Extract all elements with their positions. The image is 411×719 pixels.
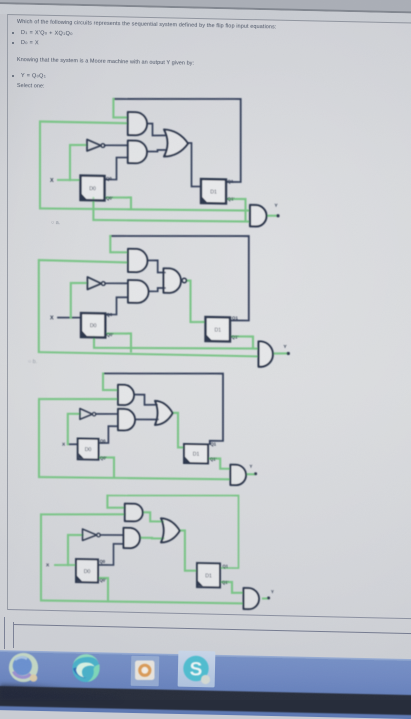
wire Q1 drop to AND1 in1 (a) xyxy=(113,99,127,118)
taskbar button (orange app) xyxy=(130,655,159,685)
wire rail2 under D0 (a) xyxy=(93,198,250,223)
inverter N1 (d) xyxy=(83,529,101,541)
node Y node (c) xyxy=(254,472,257,475)
window frame left tick inner xyxy=(13,622,14,648)
inverter N1 (c) xyxy=(80,409,96,420)
wire X to inverter riser (d) xyxy=(68,535,83,566)
wire left rail to Y gate (d) xyxy=(41,513,242,605)
wire X to inverter riser (a) xyxy=(70,145,87,181)
wire X to inverter riser (c) xyxy=(68,414,80,445)
Select one xyxy=(17,83,45,90)
bullet 3 xyxy=(12,75,14,77)
wire OR out to D1 (a) xyxy=(188,143,201,187)
wire X input (d) xyxy=(55,564,76,567)
wire Q1n to Y gate (d) xyxy=(220,582,242,593)
wire Q1 drop to AND1 in1 (c) xyxy=(103,373,118,390)
wire inverter out (b) xyxy=(105,282,128,285)
wire rail2 under D0 (b) xyxy=(94,337,259,351)
AND gate A1 (c) xyxy=(118,385,134,405)
D flip-flop D1 (b) xyxy=(206,317,231,341)
bullet 1 xyxy=(12,32,14,34)
taskbar button (skype, active) xyxy=(178,650,216,687)
wire left rail to AND1 in2 (b) xyxy=(39,260,259,356)
bottom-left extra dark corner xyxy=(0,684,120,700)
wire X input (c) xyxy=(68,443,78,445)
OR gate O1 (a) xyxy=(164,130,188,157)
wire Q1 feedback (b) xyxy=(110,233,249,320)
AND gate A2 (c) xyxy=(118,409,135,431)
band between top lines xyxy=(0,4,411,24)
taskbar icon: skype xyxy=(183,656,210,684)
wire Y output (a) xyxy=(267,215,277,217)
wire Y output (d) xyxy=(263,597,267,599)
wire Q0 to AND2 (b) xyxy=(105,297,128,315)
wire Q0 to AND2 (a) xyxy=(105,157,128,180)
radio option b xyxy=(28,359,37,365)
window lower frame line xyxy=(13,624,411,635)
wire left rail to Y gate (c) xyxy=(39,398,230,481)
wire Q1n to Y gate (b) xyxy=(230,336,253,348)
wire Q0n drop (a) xyxy=(105,197,132,209)
bullet 2 xyxy=(12,42,14,44)
content panel top border xyxy=(6,14,411,24)
AND gate A2 (b) xyxy=(128,280,149,303)
content panel left border xyxy=(7,14,8,610)
wire AND2 out to NAND (b) xyxy=(149,288,166,292)
wire Q0n drop (b) xyxy=(105,333,131,351)
wire AND1 out to OR (d) xyxy=(143,512,163,522)
wire inverter out (c) xyxy=(96,413,118,416)
OR gate O1 (c) xyxy=(155,401,173,425)
top dark separator line xyxy=(0,2,411,13)
wire AND2 out to OR (c) xyxy=(135,418,158,421)
node Y node (d) xyxy=(267,596,270,599)
wire left rail to AND1 in2 (a) xyxy=(40,121,250,212)
wire AND1 out to OR (c) xyxy=(135,394,157,405)
AND gate NAND (b) xyxy=(164,268,181,293)
wire NAND out to D1 (b) xyxy=(187,280,206,322)
AND gate Y gate (d) xyxy=(244,588,260,609)
AND gate A1 (b) xyxy=(128,249,147,272)
second prompt line xyxy=(17,57,194,67)
wire Q1 feedback (c) xyxy=(103,371,223,444)
wire Y output (b) xyxy=(274,352,287,355)
wire Q1 drop to AND1 in1 (b) xyxy=(110,236,128,253)
D flip-flop D1 (c) xyxy=(184,444,208,463)
D flip-flop D1 (d) xyxy=(197,563,220,587)
question title text xyxy=(17,19,277,30)
wire Q1 feedback (d) xyxy=(107,493,238,568)
wire inverter out (a) xyxy=(105,144,128,147)
D flip-flop D0 (a) xyxy=(81,176,105,201)
D flip-flop D0 (d) xyxy=(76,559,98,582)
taskbar icon: search orb xyxy=(9,653,38,682)
AND gate Y gate (a) xyxy=(250,205,267,227)
bottom screen bezel (dark) xyxy=(0,686,411,715)
wire AND2 out to OR (d) xyxy=(141,538,164,539)
D flip-flop D1 (a) xyxy=(201,179,226,203)
wire Q1 feedback (a) xyxy=(113,97,240,183)
top screen bezel strip xyxy=(0,0,411,12)
wire Y output (c) xyxy=(246,473,254,475)
node Y node (b) xyxy=(287,352,290,355)
svg-text:S: S xyxy=(190,660,203,681)
node Y node (a) xyxy=(276,214,279,217)
D flip-flop D0 (b) xyxy=(81,313,105,337)
wire Q0 to AND2 (d) xyxy=(98,543,124,565)
D flip-flop D0 (c) xyxy=(78,438,99,459)
page bottom border line xyxy=(8,609,411,620)
AND gate A2 (a) xyxy=(128,141,147,164)
wire Q0n drop (d) xyxy=(98,578,108,602)
radio option a xyxy=(51,220,60,226)
wire Q0 to AND2 (c) xyxy=(99,426,119,443)
wire inverter out (d) xyxy=(100,534,123,537)
taskbar icon: edge browser xyxy=(72,654,99,682)
AND gate A1 (a) xyxy=(128,112,147,135)
wire AND1 out to OR (a) xyxy=(147,123,166,135)
AND gate A1 (d) xyxy=(125,504,143,522)
wire Q1n to Y gate (c) xyxy=(208,458,230,469)
inverter N1 (b) xyxy=(87,277,105,290)
AND gate Y gate (c) xyxy=(230,465,246,486)
window frame left tick outer xyxy=(4,617,5,649)
OR gate O1 (d) xyxy=(161,518,180,542)
wire X input (a) xyxy=(58,179,81,182)
AND gate Y gate (b) xyxy=(259,341,273,367)
wire Q1 drop to AND1 in1 (d) xyxy=(107,496,124,509)
wire AND1 out to NAND (b) xyxy=(149,260,166,272)
wire Q0n drop (c) xyxy=(99,457,115,477)
inverter N1 (a) xyxy=(87,139,105,151)
wire Q1n to Y gate (a) xyxy=(226,199,246,222)
wire AND2 out to OR (a) xyxy=(147,150,167,152)
wire X to inverter riser (b) xyxy=(71,283,88,318)
wire OR out to D1 (c) xyxy=(173,413,184,448)
taskbar icon: orange media app xyxy=(135,661,155,681)
wire X input (b) xyxy=(58,316,81,319)
wire OR out to D1 (d) xyxy=(180,530,197,571)
AND gate A2 (d) xyxy=(124,528,140,548)
NAND output bubble (b) xyxy=(182,278,186,282)
taskbar xyxy=(0,650,411,719)
